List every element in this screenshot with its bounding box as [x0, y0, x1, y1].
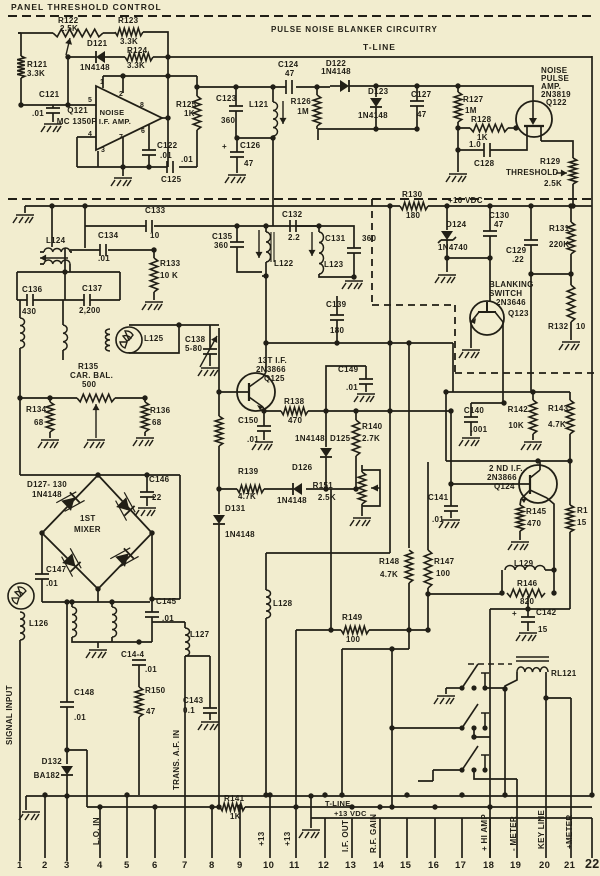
terminal 11 [289, 860, 300, 871]
resistor R124 value [127, 61, 145, 70]
svg-text:R131: R131 [549, 224, 570, 233]
svg-text:R141: R141 [224, 794, 245, 803]
wire R136 bottom [144, 432, 146, 436]
junction xfmr 72 [69, 599, 74, 604]
wire R134 bottom [49, 432, 51, 438]
capacitor C145 label [156, 597, 177, 606]
terminal 10 [263, 860, 274, 871]
coil T1 winding A [72, 607, 77, 637]
wire L124 feed [51, 206, 53, 247]
wire row630 [296, 629, 428, 631]
svg-text:470: 470 [527, 519, 541, 528]
wire Q125 collector [263, 372, 266, 377]
capacitor C150 label [238, 416, 259, 425]
net +10 VDC [448, 196, 483, 205]
diode D125 label [330, 434, 351, 443]
svg-text:2 ND I.F.: 2 ND I.F. [489, 464, 523, 473]
junction x451 base [448, 481, 453, 486]
pin 1 [100, 79, 104, 86]
transistor Q122 line3 [541, 82, 561, 91]
wire Q123 collector [502, 322, 504, 403]
svg-text:4.7K: 4.7K [380, 570, 398, 579]
wire blanker bottom rail [318, 128, 470, 129]
ground S1 [434, 696, 455, 704]
svg-text:3.3K: 3.3K [120, 37, 138, 46]
svg-text:C134: C134 [98, 231, 119, 240]
junction row392 left [443, 389, 448, 394]
svg-text:C127: C127 [411, 90, 432, 99]
capacitor C128 label [474, 159, 495, 168]
capacitor C137 value [79, 306, 101, 315]
svg-text:360: 360 [214, 241, 228, 250]
wire xfmr bottom row [72, 637, 152, 642]
resistor R123 [115, 28, 143, 36]
svg-text:Q122: Q122 [546, 98, 567, 107]
wire C145 col [151, 533, 153, 612]
wire winding2 down [62, 350, 64, 360]
resistor R121 value [27, 69, 45, 78]
transistor Q122 ref [546, 98, 567, 107]
capacitor C125 value [181, 155, 193, 164]
capacitor C123 label [216, 94, 237, 103]
svg-text:C147: C147 [46, 565, 67, 574]
capacitor C124 value [285, 69, 295, 78]
svg-text:1N4148: 1N4148 [225, 530, 255, 539]
wire C121 row [21, 104, 96, 106]
ground C138 [198, 368, 219, 376]
svg-text:D121: D121 [87, 39, 108, 48]
capacitor C127 [410, 101, 424, 106]
terminal 12 [318, 860, 329, 871]
terminal 15 [400, 860, 412, 871]
junction x505 bus [502, 792, 507, 797]
wire C145 bottom [151, 617, 153, 642]
wire C142 stub [527, 596, 529, 617]
wire S1 gnd stub [445, 688, 447, 694]
inductor L124 arrow [40, 255, 68, 262]
wire base column low [218, 446, 220, 514]
bus line 2 [87, 806, 592, 808]
wire R122 wiper down [67, 57, 69, 105]
transistor Q124 line1 [489, 464, 523, 473]
capacitor C138 label [185, 335, 206, 344]
wire C138 top [209, 325, 211, 349]
wire x571 col [546, 698, 571, 858]
svg-text:R143: R143 [548, 404, 569, 413]
diode D123 part [358, 111, 388, 120]
svg-text:R134: R134 [26, 405, 47, 414]
junction x451 top [448, 408, 453, 413]
wire terminal 16 stub [434, 818, 436, 858]
junction x571 [543, 695, 548, 700]
svg-text:22: 22 [152, 493, 162, 502]
terminal 20 [539, 860, 550, 871]
svg-text:22: 22 [585, 857, 600, 871]
wire R122 left [18, 32, 53, 34]
diode D131 part [225, 530, 255, 539]
dashed section border 2 [8, 198, 592, 200]
capacitor C139 [330, 315, 344, 320]
svg-text:C14-4: C14-4 [121, 650, 145, 659]
resistor R146 label [517, 579, 538, 588]
ground R136 [133, 438, 154, 446]
resistor R144 value [577, 518, 587, 527]
resistor R139 [237, 485, 264, 493]
wire C123 top [235, 86, 237, 106]
wire terminal 14 stub [379, 818, 381, 858]
svg-text:100: 100 [346, 635, 360, 644]
junction L128 bus [263, 792, 268, 797]
capacitor C133 label [145, 206, 166, 215]
resistor R139 value [238, 492, 256, 501]
svg-text:MIXER: MIXER [74, 525, 101, 534]
wire R125 bottom [196, 130, 198, 167]
svg-text:1.0: 1.0 [469, 140, 481, 149]
wire R129 bottom [572, 184, 574, 206]
capacitor C143 value [183, 706, 195, 715]
junction C131 gnd [351, 274, 356, 279]
resistor R136 [141, 402, 149, 432]
inductor L126 label [29, 619, 49, 628]
junction terminal 2 [42, 792, 47, 797]
pot R135 label [78, 362, 99, 371]
wire R122 right to R123 [103, 32, 115, 34]
svg-text:D124: D124 [446, 220, 467, 229]
capacitor C146 [140, 492, 154, 497]
capacitor C140 [464, 417, 478, 422]
capacitor C126 plus [222, 142, 227, 151]
svg-text:47: 47 [417, 110, 427, 119]
junction terminal 17 [459, 792, 464, 797]
inductor L121 label [249, 100, 269, 109]
svg-text:R139: R139 [238, 467, 259, 476]
junction rail R125 [194, 84, 199, 89]
ground C146 [135, 508, 156, 516]
wire R145 bottom [519, 531, 521, 540]
terminal 3 [64, 860, 70, 871]
capacitor C149 value [346, 383, 358, 392]
svg-text:5: 5 [124, 860, 130, 871]
pin 5 [88, 97, 92, 104]
wire Q124 base [451, 483, 530, 485]
junction row226 L123 [316, 223, 321, 228]
resistor R146 [507, 589, 545, 597]
wire C149 bottom [365, 384, 367, 392]
ground R134 [38, 440, 59, 448]
diode D131 [213, 515, 225, 524]
junction R129 rail [570, 203, 575, 208]
capacitor C141 value [432, 515, 444, 524]
resistor R122 [53, 29, 103, 37]
svg-text:PANEL THRESHOLD CONTROL: PANEL THRESHOLD CONTROL [11, 2, 162, 12]
terminal 1 [17, 860, 23, 871]
resistor R149 label [342, 613, 363, 622]
resistor R126 [313, 95, 321, 126]
transistor Q123 part [496, 298, 526, 307]
wire row226 gap [296, 225, 319, 227]
junction mixer top [95, 472, 100, 477]
junction terminal 22 [589, 792, 594, 797]
wire C135 top [236, 226, 238, 242]
svg-text:C131: C131 [325, 234, 346, 243]
svg-text:1N4148: 1N4148 [32, 490, 62, 499]
wire C139 top [336, 296, 338, 315]
terminal 22 [585, 857, 600, 871]
inductor L124 label [46, 236, 66, 245]
wire L122 bottom [265, 262, 267, 276]
resistor R121 label [27, 60, 48, 69]
terminal 8 [209, 860, 215, 871]
terminal 13 [345, 860, 356, 871]
svg-text:R135: R135 [78, 362, 99, 371]
svg-text:21: 21 [564, 860, 576, 871]
resistor R144 label [577, 506, 588, 515]
wire row489 [219, 488, 356, 490]
diode D122 [340, 80, 349, 92]
junction R131 bottom [568, 271, 573, 276]
ground R151 [350, 518, 371, 526]
capacitor C122 label [157, 141, 178, 150]
capacitor C143 [203, 708, 217, 713]
svg-text:8: 8 [140, 102, 144, 109]
capacitor C147 label [46, 565, 67, 574]
wire C140 bottom [470, 422, 472, 436]
junction row411 D125 [323, 408, 328, 413]
wire L123 bottom [319, 274, 354, 277]
svg-text:R126: R126 [291, 97, 312, 106]
wire S1 left [446, 687, 462, 689]
wire x180 [179, 475, 181, 599]
capacitor C133 [146, 220, 152, 232]
resistor R122 label [58, 16, 79, 25]
capacitor C135 [230, 242, 244, 247]
wire row461 [446, 460, 570, 462]
wire S2 out [474, 728, 490, 858]
junction carbal left [17, 395, 22, 400]
wire gnd stub C131 [353, 277, 355, 279]
capacitor C132 [290, 220, 296, 232]
junction row411 x390 [387, 408, 392, 413]
capacitor C127 value [417, 110, 427, 119]
relay RL121 coil [517, 667, 548, 672]
title panel threshold control [11, 2, 162, 12]
ground C121 [41, 124, 62, 132]
junction terminal 13 [349, 804, 354, 809]
svg-text:C142: C142 [536, 608, 557, 617]
wire Q124 emitter2 [547, 498, 554, 570]
ground bus left [19, 812, 40, 820]
wire terminal 2 stub [44, 795, 46, 858]
junction mixer left [39, 530, 44, 535]
resistor R138 label [284, 397, 305, 406]
capacitor C131 value [362, 234, 376, 243]
junction R147 bottom [425, 591, 430, 596]
resistor R145 [516, 505, 524, 531]
ground R142 [521, 442, 542, 450]
inductor L122 [266, 232, 271, 262]
junction D131 bus [216, 804, 221, 809]
svg-text:430: 430 [22, 307, 36, 316]
wire L121-vert [272, 138, 274, 226]
resistor R143 value [548, 420, 566, 429]
svg-text:C137: C137 [82, 284, 103, 293]
junction R128 gate [513, 125, 518, 130]
bus line 3 [311, 817, 592, 819]
resistor R148 value [380, 570, 398, 579]
transistor Q123 line1 [489, 280, 534, 289]
coil mixer primary right [63, 325, 68, 350]
svg-text:180: 180 [406, 211, 420, 220]
wire D123 top [375, 86, 377, 97]
wire C148 col [66, 602, 68, 702]
pin 4 [88, 131, 92, 138]
resistor R148 [405, 550, 413, 583]
wire xfmr top row [42, 601, 150, 603]
svg-text:PULSE NOISE BLANKER CIRCUITRY: PULSE NOISE BLANKER CIRCUITRY [271, 25, 438, 34]
capacitor C134 [100, 244, 106, 256]
capacitor C142 plus [512, 609, 517, 618]
net KEY LINE [537, 809, 546, 849]
wire pin7 down [122, 137, 124, 167]
svg-text:1M: 1M [297, 107, 309, 116]
wire C129 bottom [530, 245, 532, 274]
svg-text:C132: C132 [282, 210, 303, 219]
pot R151 arrow [371, 485, 380, 492]
diode D124 zener wings [438, 237, 456, 243]
inductor L127 [185, 628, 190, 656]
resistor R150 value [146, 707, 156, 716]
inductor L123 [319, 232, 324, 274]
wire C150 bottom [263, 431, 265, 440]
wire signal rail [197, 86, 330, 88]
junction terminal 16 [432, 804, 437, 809]
wire L127 down [184, 656, 186, 858]
wire x409 bottom [408, 630, 410, 649]
junction R134 top [47, 395, 52, 400]
junction x342 bus [339, 792, 344, 797]
svg-text:I.F. AMP.: I.F. AMP. [99, 117, 131, 126]
junction bus tline [308, 793, 313, 798]
resistor R140 value [362, 434, 380, 443]
wire R127 top stub [457, 86, 459, 92]
capacitor C141 label [428, 493, 449, 502]
junction mixer right [149, 530, 154, 535]
net R.F. GAIN [369, 814, 378, 853]
wire T-LINE right drop [591, 56, 593, 795]
box C136 C137 frame [17, 272, 120, 300]
svg-text:R132: R132 [548, 322, 569, 331]
svg-text:3.3K: 3.3K [127, 61, 145, 70]
wire C150 col [263, 411, 265, 426]
wire C130 to Q123 [489, 258, 491, 302]
wire C131 bottom [353, 253, 355, 277]
ground C142 [516, 633, 537, 641]
transistor Q122 line1 [541, 66, 568, 75]
capacitor C138 [203, 349, 217, 354]
svg-text:3: 3 [101, 147, 105, 154]
wire R150 down [138, 717, 140, 795]
inductor L129 [505, 566, 545, 571]
svg-text:20: 20 [539, 860, 550, 871]
svg-text:C141: C141 [428, 493, 449, 502]
wire pin rail 76 [103, 75, 197, 77]
wire L122 core [271, 232, 274, 262]
capacitor C137 [84, 294, 90, 306]
capacitor C143 label [183, 696, 204, 705]
resistor R136 value [152, 418, 162, 427]
resistor R150 label [145, 686, 166, 695]
wire pin3 stub [97, 151, 99, 167]
junction C129 bottom [528, 271, 533, 276]
capacitor C128 [484, 143, 490, 157]
junction D132 top [64, 747, 69, 752]
net +METER [565, 815, 574, 849]
wire mixer bottom stub [97, 589, 99, 602]
svg-text:L.O. IN: L.O. IN [92, 817, 101, 845]
wire S1 right [485, 687, 505, 689]
svg-text:RL121: RL121 [551, 669, 577, 678]
wire C129 down to R142 [530, 274, 532, 392]
net +13 VDC bottom [334, 809, 367, 818]
wire R142 ends [532, 392, 534, 440]
wire R147 top [427, 462, 429, 550]
wire xfmr stubs [72, 602, 112, 607]
wire L122 top [265, 226, 267, 232]
net signal input [5, 685, 14, 745]
svg-text:.01: .01 [74, 713, 86, 722]
wire D121 left [68, 56, 96, 58]
junction x428 row630 [425, 627, 430, 632]
wire terminal 6 stub [154, 807, 156, 858]
capacitor C137 label [82, 284, 103, 293]
capacitor C146 label [149, 475, 170, 484]
svg-text:+10 VDC: +10 VDC [448, 196, 483, 205]
ground C141 [439, 520, 460, 528]
wire x446 down [445, 392, 447, 461]
transistor Q125 [237, 373, 275, 411]
ground C140 [459, 438, 480, 446]
mixer diamond D127-130 [42, 475, 152, 589]
resistor R149 value [346, 635, 360, 644]
resistor R144 [566, 505, 574, 532]
wire C122 top [148, 125, 150, 150]
svg-text:R149: R149 [342, 613, 363, 622]
svg-text:+: + [512, 609, 517, 618]
wire xfmr gnd stub [97, 642, 99, 648]
wire C131 branch [319, 226, 354, 248]
potentiometer R122 wiper arrow [65, 38, 72, 55]
resistor R147 label [434, 557, 455, 566]
ground R145 [508, 542, 529, 550]
junction x331 bottom [328, 627, 333, 632]
pin 6 [141, 128, 145, 135]
wire R144 top [569, 461, 571, 505]
resistor R138 value [288, 416, 302, 425]
junction terminal 6 [152, 804, 157, 809]
svg-text:10: 10 [263, 860, 274, 871]
wire row594 [428, 593, 502, 595]
svg-text:L122: L122 [274, 259, 294, 268]
svg-text:R129: R129 [540, 157, 561, 166]
inductor L123 arrow [309, 232, 316, 256]
diode D124 [441, 231, 453, 240]
capacitor C132 value [288, 233, 300, 242]
svg-text:R136: R136 [150, 406, 171, 415]
terminal 17 [455, 860, 466, 871]
wire C147 bottom [41, 579, 43, 602]
diode D126 part [277, 496, 307, 505]
junction C138 tap [176, 322, 181, 327]
